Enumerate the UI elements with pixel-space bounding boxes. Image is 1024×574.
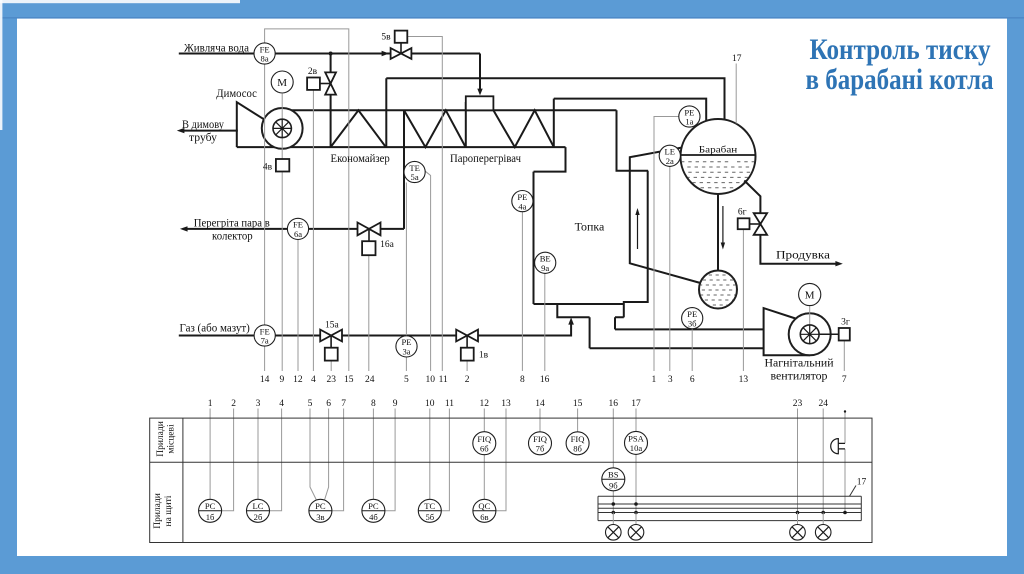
actuator square 4в below exhauster xyxy=(276,159,289,172)
label FIQ 7б xyxy=(533,434,548,453)
label Перегріта пара в колектор xyxy=(194,215,270,242)
wire valve 5в spray branch xyxy=(479,54,481,90)
valve 15a xyxy=(320,330,342,361)
svg-text:15: 15 xyxy=(573,399,583,409)
svg-text:16: 16 xyxy=(540,375,550,385)
svg-text:Прилади: Прилади xyxy=(153,493,163,529)
svg-text:Димосос: Димосос xyxy=(216,86,257,100)
svg-text:14: 14 xyxy=(535,399,545,409)
svg-text:2б: 2б xyxy=(254,512,263,522)
valve 16a xyxy=(358,223,381,256)
instrument PC 1б xyxy=(199,499,222,522)
label BS 9б xyxy=(608,469,619,490)
label PE 4a xyxy=(517,192,527,211)
svg-text:Барабан: Барабан xyxy=(699,144,738,155)
valve 2в xyxy=(307,72,336,94)
drum water hatching xyxy=(681,162,755,188)
svg-text:QC: QC xyxy=(478,501,490,511)
wire panel column 17 through PSA10a to bus xyxy=(635,409,637,513)
svg-text:Економайзер: Економайзер xyxy=(331,153,391,165)
label valve 2в xyxy=(308,67,318,77)
svg-text:1: 1 xyxy=(208,399,213,409)
svg-text:1а: 1а xyxy=(685,117,693,127)
svg-text:BS: BS xyxy=(608,469,619,479)
wire panel column 13 xyxy=(496,409,506,511)
wire signal 6 from PE3б xyxy=(691,329,693,371)
arrow feedwater flow xyxy=(382,51,390,57)
wire panel column 16 through BS9б to bus xyxy=(612,409,614,513)
wire blowdown from drum to valve 6г xyxy=(744,181,836,264)
wire signal 17 to drum xyxy=(735,64,737,124)
air duct walls from pedestal xyxy=(590,317,615,348)
svg-text:13: 13 xyxy=(739,375,749,385)
valve 6г xyxy=(738,213,767,235)
wire panel column 15 xyxy=(577,409,579,433)
instrument PE 3a xyxy=(396,336,417,357)
instrument FE 8a xyxy=(254,43,275,64)
svg-text:5б: 5б xyxy=(425,512,434,522)
lamp 3 xyxy=(790,513,806,541)
lamp 2 xyxy=(628,513,644,541)
wire economizer-to-drum line xyxy=(386,78,724,122)
exhauster fan housing circle xyxy=(262,108,303,149)
svg-text:6б: 6б xyxy=(480,443,489,453)
label valve 15a xyxy=(325,320,340,330)
svg-text:LC: LC xyxy=(253,501,264,511)
wire panel column 4 xyxy=(270,409,282,511)
svg-text:8а: 8а xyxy=(261,54,269,64)
svg-text:трубу: трубу xyxy=(189,130,217,144)
wire socket drop line xyxy=(844,412,846,513)
svg-text:12: 12 xyxy=(480,399,490,409)
wire panel column 10 xyxy=(429,409,431,500)
label PC 4б xyxy=(368,501,379,522)
panel table frame xyxy=(150,418,872,542)
wire signal 7 from 3г xyxy=(843,341,845,371)
wire signal 3 from LE2a xyxy=(669,166,671,371)
mud drum body xyxy=(699,271,737,309)
svg-text:Продувка: Продувка xyxy=(776,248,831,262)
label FIQ 6б xyxy=(477,434,492,453)
wire superheater outlet pipe xyxy=(553,99,555,148)
wire signal 8 from PE4a xyxy=(521,212,523,371)
wire panel column 3 xyxy=(257,409,259,500)
svg-text:7: 7 xyxy=(341,399,346,409)
label Нагнітальний вентилятор xyxy=(765,356,835,383)
label bus 17 xyxy=(857,478,867,488)
exhauster fan wheel xyxy=(273,119,291,137)
svg-text:17: 17 xyxy=(631,399,641,409)
riser channel left wall with diagonals to drum and mud drum xyxy=(630,148,701,283)
lamp 4 xyxy=(815,513,831,541)
svg-text:3в: 3в xyxy=(316,512,324,522)
label valve 5в xyxy=(381,33,391,43)
svg-text:Живляча вода: Живляча вода xyxy=(184,40,250,54)
svg-text:11: 11 xyxy=(445,399,454,409)
svg-text:7а: 7а xyxy=(261,336,269,346)
instrument PE 4a xyxy=(512,191,533,212)
drum water level chord xyxy=(681,154,756,156)
node junction dots on bus xyxy=(612,410,847,514)
label Живляча вода xyxy=(184,40,250,54)
svg-text:1б: 1б xyxy=(206,512,215,522)
svg-text:4: 4 xyxy=(311,375,316,385)
svg-text:5: 5 xyxy=(404,375,409,385)
label Димосос xyxy=(216,86,257,100)
wire gas fuel line (Газ) xyxy=(179,324,571,336)
instrument QC 6в xyxy=(473,499,496,522)
instrument FIQ 7б xyxy=(529,432,552,455)
terminal bus strip xyxy=(598,496,861,520)
wire steam line to collector (Перегріта пара) xyxy=(180,226,404,231)
signal end numbers row xyxy=(260,375,847,385)
label Продувка xyxy=(776,248,831,262)
duct right wall down to furnace xyxy=(617,110,649,170)
label M exhauster motor xyxy=(277,77,287,89)
instrument PE 1a xyxy=(679,106,700,127)
forced draft fan casing (Нагнітальний вентилятор) xyxy=(764,308,810,355)
instrument TE 5a xyxy=(404,161,425,182)
svg-text:16а: 16а xyxy=(380,240,395,250)
label QC 6в xyxy=(478,501,490,522)
label line 17 top xyxy=(732,54,742,64)
label FE 6a xyxy=(293,220,303,239)
svg-text:PC: PC xyxy=(205,501,216,511)
svg-text:М: М xyxy=(805,290,815,302)
instrument FIQ 6б xyxy=(473,432,496,455)
convective shaft right wall xyxy=(624,171,648,318)
svg-text:5: 5 xyxy=(308,399,313,409)
svg-text:2: 2 xyxy=(231,399,236,409)
label Газ (або мазут) xyxy=(180,320,250,334)
label TC 5б xyxy=(424,501,435,522)
svg-text:3б: 3б xyxy=(688,318,697,328)
label square 4в xyxy=(263,163,273,173)
svg-text:4в: 4в xyxy=(263,163,273,173)
forced draft fan wheel xyxy=(800,325,819,344)
wire signal 24 from 16a xyxy=(368,255,370,371)
wire superheater-to-drum line xyxy=(554,99,706,122)
svg-text:15: 15 xyxy=(344,375,354,385)
wire signal 16 from BE9a xyxy=(544,273,546,371)
svg-text:9а: 9а xyxy=(541,263,549,273)
label M fan motor xyxy=(805,290,815,302)
wire signal 2 from 1в xyxy=(466,361,468,371)
air duct to forced draft fan xyxy=(590,329,764,348)
label В димову трубу xyxy=(182,117,224,144)
instrument FIQ 8б xyxy=(566,432,589,455)
label LE 2a xyxy=(665,147,676,166)
label Топка xyxy=(575,219,605,233)
arrow blowdown (Продувка) xyxy=(835,261,842,266)
svg-text:на щиті: на щиті xyxy=(164,495,174,526)
drum (Барабан) body xyxy=(681,119,756,194)
lamp 1 xyxy=(606,513,622,541)
svg-text:PC: PC xyxy=(315,501,326,511)
svg-text:9б: 9б xyxy=(609,481,618,491)
wire signal 15 from FE8a top xyxy=(265,29,349,371)
svg-text:24: 24 xyxy=(365,375,375,385)
wire panel column 1 xyxy=(209,409,211,500)
svg-text:Пароперегрівач: Пароперегрівач xyxy=(450,153,521,165)
furnace top-left step xyxy=(534,147,566,172)
svg-text:7б: 7б xyxy=(536,444,545,454)
label Пароперегрівач xyxy=(450,153,521,165)
label PC 1б xyxy=(205,501,216,522)
wire panel column 24 xyxy=(822,409,824,513)
svg-text:колектор: колектор xyxy=(212,229,253,243)
motor M of exhauster xyxy=(271,71,293,93)
svg-text:2в: 2в xyxy=(308,67,318,77)
furnace bottom xyxy=(534,303,624,305)
wire panel column 8 xyxy=(372,409,374,500)
instrument BS 9б xyxy=(602,468,625,491)
label PC 3в xyxy=(315,501,326,522)
svg-text:23: 23 xyxy=(326,375,336,385)
svg-text:11: 11 xyxy=(439,375,448,385)
instrument PSA 10a xyxy=(625,431,648,454)
svg-text:16: 16 xyxy=(609,399,619,409)
svg-text:10: 10 xyxy=(425,375,435,385)
arrow upward flow in riser channel xyxy=(635,208,639,249)
wire panel column 5 xyxy=(310,409,317,501)
motor M of forced draft fan xyxy=(799,283,821,305)
instrument BE 9a xyxy=(535,252,556,273)
bus label 17 leader xyxy=(850,486,857,497)
forced draft fan housing circle xyxy=(789,313,831,355)
svg-text:17: 17 xyxy=(857,478,867,488)
svg-text:2а: 2а xyxy=(666,156,674,166)
label Барабан xyxy=(699,144,738,155)
svg-text:Топка: Топка xyxy=(575,219,605,233)
svg-text:14: 14 xyxy=(260,375,270,385)
svg-text:в барабані котла: в барабані котла xyxy=(806,63,994,96)
instrument PC 3в xyxy=(309,499,332,522)
wire superheater inlet pipe xyxy=(403,110,405,229)
svg-text:4б: 4б xyxy=(369,512,378,522)
wire fan2 shaft to 3г xyxy=(819,333,839,335)
wire signal 4 from 2в xyxy=(312,90,314,371)
label PE 3a xyxy=(401,337,411,356)
actuator square 3г xyxy=(839,328,850,341)
arrow gas into furnace xyxy=(568,317,574,324)
label valve 1в xyxy=(479,351,489,361)
svg-text:5а: 5а xyxy=(411,172,419,182)
wire flue to chimney (В димову трубу) xyxy=(177,128,238,133)
label PSA 10a xyxy=(628,434,645,453)
svg-text:В димову: В димову xyxy=(182,117,224,131)
wire economizer outlet riser xyxy=(385,78,387,147)
svg-text:2: 2 xyxy=(465,375,470,385)
node feedwater junction xyxy=(329,52,333,56)
svg-text:Нагнітальний: Нагнітальний xyxy=(765,356,835,370)
svg-text:9: 9 xyxy=(280,375,285,385)
wire signal 13 from 6г xyxy=(742,229,744,371)
svg-text:1: 1 xyxy=(652,375,657,385)
wire signal 23 from 15a xyxy=(330,361,332,371)
wire panel column 9 xyxy=(385,409,395,511)
svg-text:місцеві: місцеві xyxy=(167,424,177,454)
instrument LC 2б xyxy=(247,499,270,522)
valve 5в xyxy=(391,31,412,59)
label Прилади місцеві (rotated) xyxy=(156,421,177,457)
valve 1в xyxy=(456,330,478,361)
svg-text:10а: 10а xyxy=(630,443,643,453)
svg-text:Перегріта пара в: Перегріта пара в xyxy=(194,215,270,229)
wire signal 11 from 5в xyxy=(408,37,443,372)
exhauster fan (Димосос) casing xyxy=(237,102,264,147)
label Економайзер xyxy=(331,153,391,165)
arrow spray into attemperator xyxy=(477,89,482,96)
blue slide frame xyxy=(0,0,1024,18)
svg-text:15а: 15а xyxy=(325,320,340,330)
wire feedwater line (Живляча вода) xyxy=(179,53,480,55)
label FIQ 8б xyxy=(571,434,586,453)
label BE 9a xyxy=(540,254,551,273)
wire motor shaft of forced draft fan xyxy=(809,306,811,335)
wire panel column 7 xyxy=(332,409,344,511)
svg-text:8: 8 xyxy=(371,399,376,409)
svg-text:4а: 4а xyxy=(518,201,526,211)
svg-text:6в: 6в xyxy=(480,512,488,522)
arrow downward flow on downcomer xyxy=(721,206,725,250)
label valve 16a xyxy=(380,240,395,250)
wire panel column 12 through FIQ6б xyxy=(483,409,485,500)
instrument TC 5б xyxy=(418,499,441,522)
wire superheater coil 1 zigzag xyxy=(404,110,466,147)
attemperator box on superheater xyxy=(466,96,494,110)
wire panel column 14 xyxy=(539,409,541,433)
wire signal 5 from TE5a and PE3a xyxy=(405,183,407,372)
instrument FE 7a xyxy=(254,325,275,346)
svg-text:12: 12 xyxy=(293,375,303,385)
svg-text:10: 10 xyxy=(425,399,435,409)
label PE 1a xyxy=(684,107,694,126)
duct bottom wall xyxy=(237,146,566,148)
svg-text:9: 9 xyxy=(393,399,398,409)
wire economizer coil zigzag xyxy=(331,110,386,147)
instrument LE 2a xyxy=(659,145,680,166)
svg-text:4: 4 xyxy=(279,399,284,409)
svg-text:13: 13 xyxy=(501,399,511,409)
wire panel column 23 xyxy=(797,409,799,513)
svg-text:3: 3 xyxy=(668,375,673,385)
label FE 8a xyxy=(260,44,270,63)
svg-text:5в: 5в xyxy=(381,33,391,43)
svg-text:Газ (або мазут): Газ (або мазут) xyxy=(180,320,250,334)
instrument PE 3б xyxy=(682,308,703,329)
svg-text:TC: TC xyxy=(424,501,435,511)
svg-text:6г: 6г xyxy=(738,208,747,218)
duct top wall (gas duct) xyxy=(285,109,617,111)
svg-text:Прилади: Прилади xyxy=(156,421,166,457)
wire panel column 2 xyxy=(222,409,234,511)
label LC 2б xyxy=(253,501,264,522)
svg-text:7: 7 xyxy=(842,375,847,385)
svg-text:6: 6 xyxy=(326,399,331,409)
svg-text:3г: 3г xyxy=(841,318,850,328)
socket symbol xyxy=(831,439,845,454)
panel column numbers row xyxy=(208,399,828,409)
wire panel column 6 xyxy=(324,409,328,501)
svg-text:М: М xyxy=(277,77,287,89)
svg-text:8: 8 xyxy=(520,375,525,385)
wire downcomer drum to mud drum xyxy=(717,192,719,272)
mud drum water hatching xyxy=(699,275,737,305)
label square 3г xyxy=(841,318,850,328)
furnace left wall (Топка) xyxy=(533,172,535,304)
label PE 3б xyxy=(687,309,697,328)
label FE 7a xyxy=(260,326,270,345)
svg-text:8б: 8б xyxy=(573,444,582,454)
svg-text:вентилятор: вентилятор xyxy=(771,369,828,383)
wire signal 14 from FE8a xyxy=(264,64,266,371)
svg-text:17: 17 xyxy=(732,54,742,64)
wire superheater coil 2 zigzag xyxy=(493,110,553,147)
wire coil1 to attemperator box xyxy=(465,102,467,147)
label valve 6г xyxy=(738,208,747,218)
wire branch to valve 2в and economizer inlet xyxy=(330,54,332,148)
svg-text:6: 6 xyxy=(690,375,695,385)
wire signal 10 from TE5a xyxy=(425,171,430,371)
label Прилади на щиті (rotated) xyxy=(153,493,174,529)
svg-text:3: 3 xyxy=(256,399,261,409)
furnace pedestal xyxy=(557,304,624,317)
svg-text:1в: 1в xyxy=(479,351,489,361)
svg-text:PC: PC xyxy=(368,501,379,511)
wire panel column 11 xyxy=(441,409,449,511)
svg-text:6а: 6а xyxy=(294,229,302,239)
svg-text:Контроль тиску: Контроль тиску xyxy=(810,33,991,66)
instrument PC 4б xyxy=(362,499,385,522)
instrument FE 6a xyxy=(287,218,308,239)
label TE 5a xyxy=(409,163,420,182)
wire signal 1 from PE1a xyxy=(654,117,679,372)
svg-text:24: 24 xyxy=(818,399,828,409)
wire signal 12 from FE6a xyxy=(297,240,299,372)
wire signal 9 motor shaft and 4в xyxy=(281,94,283,371)
svg-text:3а: 3а xyxy=(402,347,410,357)
svg-text:23: 23 xyxy=(793,399,803,409)
